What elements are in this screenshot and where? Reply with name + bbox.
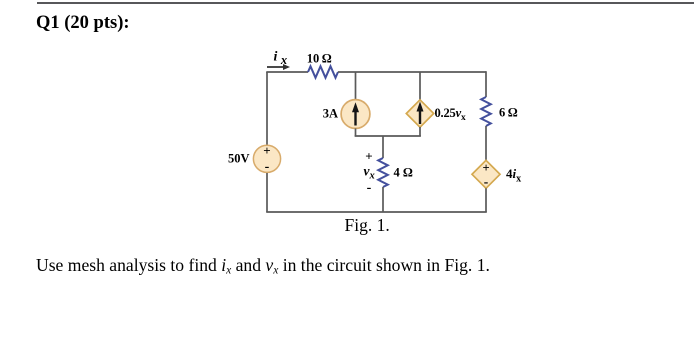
wire right vertical bottom [485,188,487,212]
resistor 10ohm zigzag [308,66,338,77]
svg-text:-: - [265,160,270,175]
svg-text:vx: vx [364,164,375,182]
wire top left segment [267,70,308,73]
wire inner node down to 4ohm [382,136,384,158]
dependent current source 0.25vx [406,100,433,127]
svg-text:50V: 50V [228,152,250,166]
wire bottom horizontal [266,211,487,213]
svg-text:4 Ω: 4 Ω [394,166,413,180]
wire branch to 0.25vx source [419,72,421,100]
heading Q1 (20 pts): [36,13,130,34]
wire left vertical top (node A to 50V +) [266,72,268,145]
wire right vertical top [485,71,487,97]
wire branch to 3A source [355,72,357,100]
svg-text:+: + [263,143,270,158]
dependent voltage source 4ix [472,160,500,189]
voltage source V1 50V [253,143,280,175]
svg-text:6 Ω: 6 Ω [499,106,518,120]
problem sentence [36,255,490,276]
resistor 4ohm zigzag [378,158,388,187]
current arrow ix [267,64,290,70]
svg-text:-: - [484,174,489,189]
svg-text:10 Ω: 10 Ω [307,52,332,66]
wire 4ohm to bottom [382,187,384,212]
top horizontal rule [37,2,694,4]
current source I1 3A [341,100,370,129]
svg-text:+: + [482,161,489,175]
wire inner bottom horizontal [355,135,421,137]
wire 0.25vx to inner node [419,127,421,136]
svg-text:0.25vx: 0.25vx [435,106,466,123]
svg-text:ix: ix [274,50,288,68]
wire 3A to inner node [355,128,357,136]
svg-text:3A: 3A [323,107,338,121]
svg-text:+: + [365,149,372,164]
caption Fig. 1. [345,215,390,236]
svg-text:4ix: 4ix [506,166,521,185]
wire top right segment [338,71,486,73]
resistor 6ohm zigzag [481,97,491,126]
wire left vertical bottom [266,173,268,212]
wire right vertical middle [485,126,487,161]
svg-text:-: - [367,181,372,196]
